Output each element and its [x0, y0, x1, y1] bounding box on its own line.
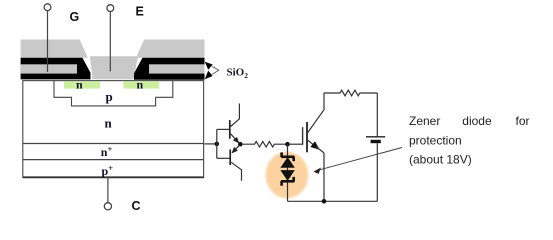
- emitter contact metal center valley (gray): [90, 56, 138, 79]
- svg-text:SiO2: SiO2: [227, 67, 249, 80]
- transistor Q2 emitter w/ arrow into bar: [232, 145, 239, 153]
- left gate stack (black SiO2 with poly): [21, 58, 91, 80]
- node dot B: [238, 142, 243, 147]
- terminal E circle: [107, 5, 114, 12]
- emitter drop wire: [323, 153, 325, 201]
- transistor Q1 (top NPN) base wire: [217, 128, 230, 130]
- svg-text:diode: diode: [462, 114, 492, 128]
- emitter metal cap left (gray): [21, 40, 88, 58]
- zener diode Z2 (bottom, cathode down): [281, 171, 294, 186]
- emitter metal cap right (gray): [136, 40, 205, 58]
- bottom rail: [288, 200, 378, 202]
- SiO2 callout tail bottom: [212, 70, 219, 74]
- svg-text:G: G: [70, 10, 80, 24]
- left gate poly (gray): [21, 64, 77, 73]
- base bus vertical: [216, 129, 218, 158]
- svg-text:Zener: Zener: [409, 114, 440, 128]
- transistor Q2 bar: [229, 150, 231, 166]
- SiO2 callout arrowhead top: [205, 62, 213, 70]
- n+ source region left (green): [64, 81, 100, 88]
- Q3 gate bar: [302, 127, 304, 145]
- transistor Q1 collector: [231, 104, 240, 127]
- orange highlight ellipse: [266, 152, 309, 199]
- transistor Q2 (bottom PNP) base wire: [217, 157, 230, 159]
- svg-text:C: C: [132, 199, 141, 213]
- SiO2 callout arrowhead bottom: [205, 71, 213, 80]
- right rail down to battery: [376, 93, 378, 136]
- battery V1 short plate: [371, 140, 381, 143]
- top rail + resistor R2: [324, 90, 377, 96]
- n+/p+ boundary line: [23, 159, 204, 161]
- wire C: [107, 177, 109, 203]
- svg-text:n: n: [105, 116, 113, 131]
- svg-text:for: for: [516, 114, 530, 128]
- annotation arrow to zener: [316, 148, 402, 171]
- n/n+ boundary line: [23, 143, 204, 145]
- labels: [70, 5, 144, 213]
- stub from device to circuit: [204, 143, 216, 145]
- svg-text:protection: protection: [409, 133, 462, 147]
- transistor Q1 emitter w/ arrow: [231, 134, 239, 143]
- Q3 emitter w/ arrow: [307, 140, 319, 149]
- annotation text: [409, 114, 530, 166]
- svg-text:(about 18V): (about 18V): [409, 153, 472, 167]
- device body (n- drift / n+ / p+ stack): [23, 81, 204, 178]
- battery lower wire: [376, 143, 378, 201]
- right gate poly (gray): [149, 64, 205, 73]
- wire G: [47, 11, 49, 72]
- resistor R1 (gate series): [243, 141, 288, 147]
- node dot D: [322, 199, 327, 204]
- zener diode Z1 (top, cathode up): [281, 152, 294, 167]
- p-well outline: [54, 81, 173, 106]
- n+ source region right (green): [123, 81, 159, 88]
- wire E: [109, 12, 111, 72]
- transistor Q3 (output, IGBT-style) gate wire: [290, 143, 303, 145]
- right gate stack (black SiO2 with poly): [134, 58, 205, 80]
- transistor Q2 collector: [231, 162, 241, 180]
- svg-text:n: n: [76, 77, 83, 91]
- Q3 body bar: [306, 122, 308, 152]
- zener branch wire: [287, 144, 289, 201]
- SiO2 callout tail top: [212, 66, 219, 70]
- Q3 collector: [307, 93, 324, 134]
- node dot A: [215, 142, 220, 147]
- svg-text:p: p: [106, 89, 113, 104]
- battery V1 long plate: [366, 136, 385, 138]
- bottom collector edge: [23, 176, 204, 178]
- terminal G circle: [44, 4, 51, 11]
- svg-text:n: n: [137, 77, 144, 91]
- node dot C: [285, 142, 290, 147]
- terminal C circle: [104, 203, 111, 210]
- transistor Q1 bar: [229, 120, 231, 139]
- svg-text:E: E: [136, 5, 144, 19]
